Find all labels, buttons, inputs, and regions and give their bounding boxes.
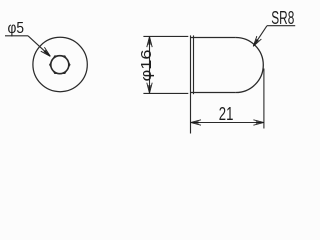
label phi5 leader arrowhead <box>41 47 52 58</box>
cylinder top outline <box>191 37 236 39</box>
label phi5 leader wire <box>28 36 50 57</box>
dimension phi16 up arrowhead <box>147 37 152 48</box>
dimension 21 right extension line <box>263 69 265 129</box>
dimension phi16 bottom extension line <box>143 92 188 94</box>
spherical cap SR8 arc <box>236 38 263 93</box>
label SR8 shoulder line <box>267 25 295 27</box>
label phi5 shoulder line <box>5 35 28 37</box>
dimension phi16 top extension line <box>143 35 188 37</box>
dimension 21 left arrowhead <box>191 120 202 125</box>
label SR8 leader wire <box>253 26 267 47</box>
hexagon (hex socket) <box>50 56 70 74</box>
dimension 21 right arrowhead <box>253 120 264 125</box>
dimension phi16 dimension line <box>149 37 151 94</box>
cylinder bottom outline <box>191 92 236 94</box>
chamfer edge line <box>193 35 195 94</box>
svg-text:φ16: φ16 <box>138 50 155 82</box>
cylinder left end face line + 21 left extension line <box>190 35 192 133</box>
dimension 21 dimension line <box>191 122 264 124</box>
dimension phi16 down arrowhead <box>147 83 152 94</box>
outer circle (end view of phi16 cylinder) <box>33 37 87 91</box>
svg-text:21: 21 <box>219 104 234 124</box>
label SR8 leader arrowhead <box>251 36 261 48</box>
inner circle (phi5 socket bore) <box>51 56 69 74</box>
svg-text:φ5: φ5 <box>8 20 25 37</box>
